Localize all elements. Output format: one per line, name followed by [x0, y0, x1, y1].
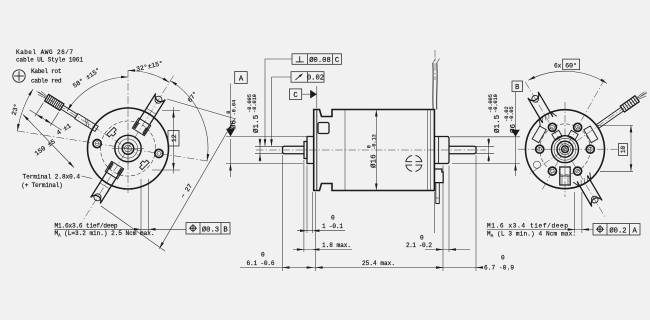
rear vent slot 30deg: [584, 126, 598, 143]
svg-text:0: 0: [501, 255, 505, 262]
rear bottom slot: [560, 167, 570, 185]
datum B frame: [512, 81, 523, 92]
svg-text:B: B: [223, 226, 228, 234]
svg-text:12: 12: [171, 134, 178, 142]
angle dim 6x60 arc: [528, 71, 607, 83]
extension lines bottom: [282, 155, 284, 271]
terminal blade rear lower-right: [577, 176, 602, 207]
solder terminal pin down: [436, 183, 440, 204]
dimension 2.1 -0.2: [425, 249, 470, 251]
dimension 150 +/-5 (cable length): [23, 115, 74, 168]
rear cable block: [620, 96, 639, 112]
datum A frame: [235, 72, 248, 84]
side view: motor body: [256, 50, 486, 204]
motor outer circle rear: [526, 110, 605, 189]
hub rings rear: [552, 136, 579, 163]
dimension 6.7 -0.9: [443, 267, 483, 269]
flange face lip: [316, 110, 318, 191]
rear hole at 240deg: [548, 167, 556, 175]
terminal blade front lower: [105, 161, 124, 179]
perpendicularity symbol: [299, 56, 301, 62]
cable sleeve overlap mark: [86, 118, 87, 126]
svg-text:0: 0: [331, 215, 335, 222]
rear hole at 0deg: [586, 145, 594, 153]
angle dim 58deg +/-15 arc: [67, 77, 128, 111]
sheet tab upper left: [107, 127, 118, 138]
terminal hole rear lower-right: [591, 196, 598, 203]
svg-text:Ø0.3: Ø0.3: [202, 225, 219, 234]
rear vent slot 150deg: [532, 126, 546, 143]
svg-text:1.8 max.: 1.8 max.: [322, 242, 351, 249]
svg-text:cable red: cable red: [31, 77, 62, 84]
svg-text:C: C: [335, 57, 340, 65]
position tolerance frame 0.3 B: [186, 223, 230, 235]
rear diagonal 60deg: [541, 80, 604, 191]
svg-text:Ø1.5: Ø1.5: [493, 114, 502, 133]
motor lead wires up: [432, 63, 434, 110]
svg-text:6x: 6x: [554, 62, 562, 69]
center line vertical: [127, 70, 129, 193]
motor can outline: [314, 110, 435, 191]
rear hole at 180deg: [536, 145, 544, 153]
can seam: [344, 110, 346, 191]
rear cable axis: [529, 92, 647, 175]
svg-text:Ø1.5: Ø1.5: [252, 114, 261, 133]
fcf leader 2: [272, 76, 292, 78]
center line terminal axis 58deg: [82, 76, 173, 222]
left view: front face of motor: [17, 70, 209, 221]
mounting hole M1.6 left: [93, 140, 101, 148]
label dia6 -0.04 front: [226, 100, 238, 129]
axis center line: [256, 149, 486, 151]
svg-text:6.7 -0.9: 6.7 -0.9: [484, 265, 514, 272]
leader from terminal note: [82, 176, 93, 179]
position symbol: [190, 226, 195, 231]
rear shaft: [449, 146, 476, 153]
rear center line vertical: [564, 102, 566, 197]
svg-text:-0.005: -0.005: [488, 94, 494, 113]
hub rings front: [115, 135, 141, 161]
terminal hole rear upper-left: [532, 95, 539, 102]
svg-text:cable UL Style 1061: cable UL Style 1061: [16, 57, 83, 64]
datum B leader + triangle: [515, 92, 517, 130]
runout arrow symbol: [296, 74, 303, 80]
svg-text:(+ Terminal): (+ Terminal): [21, 182, 63, 189]
datum C frame: [289, 89, 301, 100]
lead wire cable assembly: [10, 89, 99, 167]
rear bearing boss: [434, 137, 449, 164]
rear cable: [597, 107, 624, 128]
dimension 1 -0.1: [297, 230, 345, 232]
svg-text:2.1 -0.2: 2.1 -0.2: [406, 242, 432, 249]
rear terminal axis diagonal 120deg: [525, 82, 605, 218]
svg-text:0.02: 0.02: [307, 75, 324, 83]
svg-text:Ø6: Ø6: [509, 123, 518, 133]
center line mounting hole axis 171deg: [17, 131, 209, 161]
datum A triangle: [226, 129, 235, 137]
svg-text:0: 0: [366, 145, 372, 148]
wire strands beyond block: [41, 91, 47, 96]
dimension 10 boxed: [598, 124, 633, 126]
svg-text:6.1 -0.6: 6.1 -0.6: [247, 260, 275, 267]
dimension diameter 16: [375, 110, 377, 191]
datum C leader and triangle: [302, 93, 311, 95]
cable tube: [61, 105, 78, 118]
dimension 1.8 max: [293, 249, 352, 251]
rear hole at 120deg: [548, 123, 556, 131]
svg-text:M1.6x3.6 tief/deep: M1.6x3.6 tief/deep: [55, 223, 118, 230]
svg-text:A: A: [239, 76, 244, 84]
svg-text:Kabel AWG 26/7: Kabel AWG 26/7: [16, 49, 73, 56]
leader line under right note: [487, 229, 593, 231]
svg-text:Kabel rot: Kabel rot: [31, 68, 62, 75]
fcf leader 1: [265, 58, 292, 60]
front shaft: [283, 146, 305, 153]
label dia1.5 rear: [488, 94, 502, 133]
rear cap lip: [438, 137, 440, 164]
fcf runout frame: [291, 72, 324, 83]
angle dim 32deg +/-15 arc: [128, 71, 169, 83]
terminal hole front lower: [94, 194, 101, 201]
label dia1.5 front: [247, 94, 261, 133]
extension lines for thread position: [140, 179, 142, 233]
extension lines rear position dim: [574, 192, 576, 233]
svg-text:-0.005: -0.005: [247, 94, 253, 113]
svg-text:0: 0: [261, 252, 265, 259]
fcf perpendicularity frame: [292, 54, 342, 65]
rear brush rect 120deg: [552, 130, 562, 140]
terminal hole front upper: [155, 96, 162, 103]
svg-text:60°: 60°: [565, 62, 577, 70]
dimension dia 1.5 rear: [476, 145, 494, 147]
svg-text:-0.02: -0.02: [504, 106, 510, 122]
hub center cross: [112, 148, 144, 150]
dimension diameter 6 front with datum A: [226, 136, 313, 138]
center line cable axis 148deg: [36, 91, 138, 155]
svg-text:C: C: [293, 92, 298, 100]
angle dim 23deg arc: [17, 89, 33, 131]
position tolerance frame 0.2 A: [593, 224, 640, 236]
rear hole at 300deg: [574, 167, 582, 175]
dimension 6.1 -0.6: [240, 267, 316, 269]
rear view: motor rear face: [518, 80, 647, 219]
svg-text:Ø0.08: Ø0.08: [309, 56, 331, 65]
svg-text:Ø16 -0.13: Ø16 -0.13: [370, 134, 379, 168]
svg-text:B: B: [515, 84, 520, 92]
rear center line horizontal: [518, 148, 619, 150]
svg-text:25.4 max.: 25.4 max.: [362, 260, 395, 267]
label dia6 rear: [504, 106, 518, 133]
dimension dia 6 rear: [450, 136, 520, 138]
bolt circle dashed rear: [540, 124, 591, 175]
rear cap seam: [427, 110, 429, 191]
cable outer sleeve near motor: [75, 114, 99, 132]
dimension diameter 1.5 front: [255, 145, 283, 147]
rear brush rect 60deg: [568, 130, 578, 140]
svg-text:1 -0.1: 1 -0.1: [322, 223, 343, 230]
svg-text:Terminal 2.8x0.4: Terminal 2.8x0.4: [23, 174, 81, 181]
front bearing boss: [307, 137, 314, 164]
dimension ~27 across terminals: [167, 99, 236, 119]
dimension 4 +/-1 (strain relief length): [50, 112, 59, 126]
terminal blade front upper: [132, 118, 151, 136]
svg-text:Ø0.2: Ø0.2: [609, 226, 626, 235]
svg-text:A: A: [633, 227, 638, 235]
terminal blade rear upper-left: [528, 92, 553, 123]
motor outer circle front: [88, 108, 169, 189]
svg-text:M1.6 x3.4 tief/deep: M1.6 x3.4 tief/deep: [487, 223, 568, 230]
front washer: [304, 142, 307, 159]
rear small hole 209deg: [533, 161, 540, 168]
svg-text:10: 10: [620, 146, 627, 154]
svg-text:0: 0: [420, 235, 424, 242]
vent square hole: [318, 123, 329, 134]
wire center line: [434, 50, 436, 80]
dimension 12 boxed: [162, 110, 180, 112]
rear hole at 60deg: [574, 123, 582, 131]
bolt circle dashed front: [101, 121, 156, 176]
dimension 25.4 max: [316, 267, 443, 269]
leader line under note to position frame: [55, 228, 187, 230]
sheet tab lower right: [138, 159, 149, 170]
rear wire strands: [638, 96, 646, 100]
brush cover bulge: [434, 169, 443, 183]
symbol circled plus (red wire): [13, 70, 25, 82]
svg-text:0: 0: [226, 111, 232, 114]
balance mark symbol (crossed circle): [416, 165, 422, 171]
angle dim 67deg arc: [170, 81, 208, 161]
mounting hole M1.6 right: [155, 149, 163, 157]
cable strain relief ribbed block: [45, 94, 64, 110]
